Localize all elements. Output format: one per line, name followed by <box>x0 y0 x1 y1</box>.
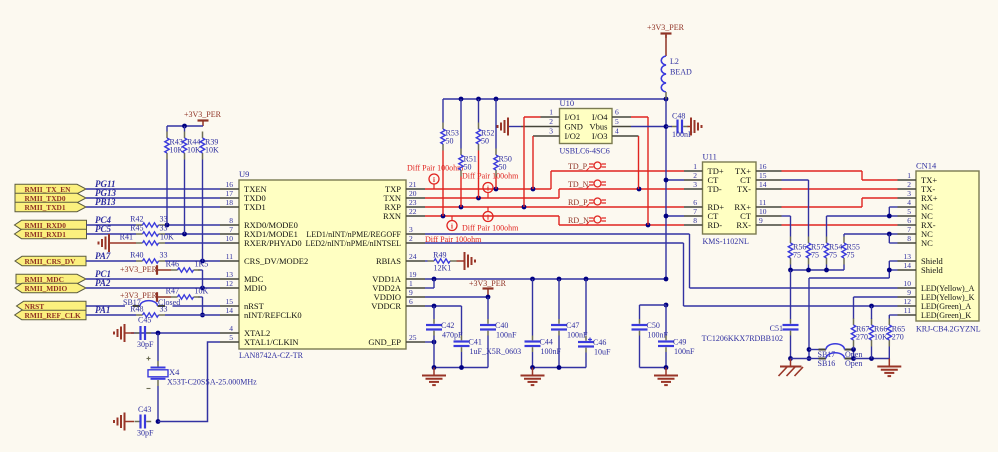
junction VDDCR C42 <box>432 304 437 309</box>
U9 pin 12 MDIO <box>220 287 239 289</box>
resistor R66 10K <box>871 319 873 326</box>
svg-text:C48: C48 <box>672 112 685 121</box>
U11 pin 8 RD- <box>684 224 703 226</box>
svg-text:5: 5 <box>615 117 619 126</box>
junction VDD C46 <box>584 277 589 282</box>
wire R52 bottom to TXN <box>478 151 480 199</box>
svg-text:LED1/nINT/nPME/REGOFF: LED1/nINT/nPME/REGOFF <box>306 230 401 239</box>
svg-text:6: 6 <box>693 198 697 207</box>
port RMII_TXD1 <box>15 202 86 211</box>
junction gnd C41 <box>459 365 464 370</box>
ground at R65 <box>888 359 890 367</box>
U9 pin 7 RXD1/MODE1 <box>220 233 239 235</box>
port RMII_REF_CLK <box>15 310 86 319</box>
svg-text:RMII_RXD1: RMII_RXD1 <box>25 230 67 239</box>
U11 pin 10 CT <box>756 215 782 217</box>
junction TD_N/U10 pin4 <box>637 187 642 192</box>
wire C47 column <box>558 279 560 319</box>
junction VDDIO C40 <box>486 295 491 300</box>
wire CN14 pin14 Shield <box>889 269 897 271</box>
capacitor C45 30pF <box>135 332 140 334</box>
svg-text:8: 8 <box>229 216 233 225</box>
ground decoupling 1 <box>433 368 435 376</box>
junction rail R51 <box>459 97 464 102</box>
junction CT RX <box>664 214 669 219</box>
svg-text:10K: 10K <box>187 146 201 155</box>
ground decoupling 3 <box>665 368 667 376</box>
svg-text:LED2/nINT/nPME/nINTSEL: LED2/nINT/nPME/nINTSEL <box>305 239 401 248</box>
junction NC78 <box>887 232 892 237</box>
svg-text:TC1206KKX7RDBB102: TC1206KKX7RDBB102 <box>702 334 783 343</box>
U9 pin 13 MDC <box>220 278 239 280</box>
svg-text:U11: U11 <box>703 152 717 162</box>
resistor R43 10K <box>166 132 168 139</box>
wire R50 top <box>495 99 497 149</box>
svg-text:50: 50 <box>481 137 489 146</box>
resistor R47 10K <box>171 296 178 298</box>
svg-text:33: 33 <box>160 305 168 314</box>
svg-text:RMII_TXD1: RMII_TXD1 <box>25 203 66 212</box>
wire RXD0 PC4 to R42 <box>87 224 137 226</box>
wire TD_P row <box>551 170 684 172</box>
junction RXP/U10 pin1 <box>522 205 527 210</box>
resistor R55 75 <box>843 237 845 244</box>
wire C44 column <box>532 279 534 336</box>
wire C42 column <box>433 306 435 319</box>
resistor R48 33 <box>136 314 143 316</box>
svg-text:12: 12 <box>226 279 234 288</box>
svg-text:TD-: TD- <box>708 184 722 194</box>
CN14 pin 2 TX- <box>898 188 917 190</box>
U11 pin 14 TX- <box>756 188 782 190</box>
svg-text:XTAL1/CLKIN: XTAL1/CLKIN <box>244 337 299 347</box>
svg-text:LAN8742A-CZ-TR: LAN8742A-CZ-TR <box>239 351 304 360</box>
wire C50 branch <box>640 304 667 306</box>
svg-text:14: 14 <box>904 261 912 270</box>
svg-text:6: 6 <box>409 297 413 306</box>
svg-text:16: 16 <box>759 162 767 171</box>
svg-text:LED(Yellow)_K: LED(Yellow)_K <box>921 293 975 302</box>
wire TX+ net <box>782 170 863 172</box>
svg-text:BEAD: BEAD <box>670 68 692 77</box>
wire LED yellow K <box>854 296 898 298</box>
junction RXP/R51 <box>459 205 464 210</box>
U10 pin 1 I/O1 <box>541 116 560 118</box>
wire TXEN PG11 <box>86 188 220 190</box>
wire 3V3 rail to pullups <box>167 125 203 127</box>
CN14 pin 4 NC <box>898 206 917 208</box>
svg-text:Diff Pair 100ohm: Diff Pair 100ohm <box>462 172 519 181</box>
junction TXP/R50 <box>494 187 499 192</box>
svg-text:C44: C44 <box>540 338 553 347</box>
CN14 pin 12 LED(Green)_A <box>898 305 917 307</box>
wire R52 top <box>478 99 480 123</box>
wire XTAL2 row <box>131 332 220 334</box>
svg-text:2: 2 <box>693 171 697 180</box>
wire C49 column <box>665 305 667 336</box>
svg-text:18: 18 <box>226 198 234 207</box>
diff pair directive circle 1 <box>429 174 439 184</box>
ground at C43 <box>124 413 126 431</box>
wire CN14 pin4 NC <box>889 206 897 208</box>
svg-text:12: 12 <box>904 297 912 306</box>
U11 pin 16 TX+ <box>756 170 782 172</box>
CN14 pin 7 NC <box>898 233 917 235</box>
svg-text:10K: 10K <box>205 146 219 155</box>
diff pair directive circle 2 <box>483 183 493 193</box>
wire VDDCR row <box>425 305 462 307</box>
U9 pin 14 nINT/REFCLK0 <box>220 314 239 316</box>
svg-text:75: 75 <box>829 251 837 260</box>
svg-text:KMS-1102NL: KMS-1102NL <box>703 237 749 246</box>
svg-text:50: 50 <box>464 163 472 172</box>
resistor R53 50 <box>442 123 444 130</box>
svg-text:1: 1 <box>549 108 553 117</box>
svg-text:R40: R40 <box>130 251 143 260</box>
U9 pin 23 RXP <box>406 206 425 208</box>
wire R53 bottom to RXN <box>442 151 444 217</box>
svg-text:GND: GND <box>565 122 583 132</box>
wire RX+ net <box>782 206 863 208</box>
wire SB right <box>853 350 855 359</box>
ground at U10 GND <box>507 118 509 136</box>
wire R51 top <box>460 99 462 149</box>
CN14 pin 9 LED(Yellow)_K <box>898 296 917 298</box>
U9 pin 19 VDD1A <box>406 278 425 280</box>
wire R43 bottom to RXD0 <box>166 160 168 226</box>
svg-text:5: 5 <box>907 207 911 216</box>
svg-text:75: 75 <box>847 251 855 260</box>
svg-text:GND_EP: GND_EP <box>368 337 401 347</box>
U9 pin 1 VDD2A <box>406 287 425 289</box>
wire R40 to U9 pin11 <box>165 260 220 262</box>
junction R66 bottom <box>869 356 874 361</box>
wire R44 bottom to RXD1 <box>184 160 186 235</box>
port RMII_RXD0 <box>15 220 87 229</box>
svg-text:17: 17 <box>226 189 234 198</box>
svg-text:33: 33 <box>160 224 168 233</box>
U10 pin 4 I/O3 <box>612 135 639 137</box>
capacitor C44 100nF <box>532 336 534 341</box>
U9 pin 5 XTAL1/CLKIN <box>220 341 239 343</box>
CN14 pin 10 LED(Yellow)_A <box>898 287 917 289</box>
svg-text:CN14: CN14 <box>916 161 937 171</box>
ground decoupling 2 <box>532 368 534 376</box>
wire decoupling gnd rail 2 <box>533 367 587 369</box>
svg-text:1K5: 1K5 <box>195 260 209 269</box>
svg-text:270: 270 <box>856 333 868 342</box>
wire R39 bottom to CRS_DV <box>202 160 204 262</box>
wire CN14 pin5 NC to R54 <box>827 215 898 217</box>
wire U10 pin4 to TD_N <box>638 136 640 189</box>
wire RXN from U9 pin22 <box>425 215 559 217</box>
capacitor C43 30pF <box>135 421 140 423</box>
svg-text:24: 24 <box>409 252 417 261</box>
svg-text:C43: C43 <box>138 405 151 414</box>
wire R51 bottom to RXP <box>460 177 462 208</box>
solder bridge SB16 Open <box>809 358 819 360</box>
svg-text:i: i <box>433 176 435 184</box>
junction C43 <box>156 419 161 424</box>
svg-text:30pF: 30pF <box>137 340 154 349</box>
svg-text:R48: R48 <box>130 305 143 314</box>
svg-text:LED(Green)_K: LED(Green)_K <box>921 311 971 320</box>
svg-text:RMII_RXD0: RMII_RXD0 <box>25 221 67 230</box>
junction gnd C47 <box>557 365 562 370</box>
wire C51 bottom <box>790 336 792 359</box>
svg-text:X53T-C20SSA-25.000MHz: X53T-C20SSA-25.000MHz <box>167 378 257 387</box>
wire RX- net <box>782 224 898 226</box>
svg-text:I/O4: I/O4 <box>592 112 608 122</box>
port RMII_RXD1 <box>15 229 87 238</box>
svg-text:14: 14 <box>226 306 234 315</box>
svg-text:16: 16 <box>226 180 234 189</box>
port RMII_MDIO <box>15 283 86 292</box>
junction shield SB16 <box>807 356 812 361</box>
svg-text:19: 19 <box>409 270 417 279</box>
junction R66 top <box>869 304 874 309</box>
wire U10 pin6 to RD_N <box>631 116 648 118</box>
svg-text:10: 10 <box>759 207 767 216</box>
svg-text:1: 1 <box>409 279 413 288</box>
wire 3V3 analog rail <box>443 98 666 100</box>
svg-text:C41: C41 <box>469 338 482 347</box>
wire U11 pin7 CT <box>666 215 684 217</box>
svg-text:+3V3_PER: +3V3_PER <box>120 265 158 274</box>
junction CT TX <box>664 178 669 183</box>
svg-text:50: 50 <box>446 137 454 146</box>
svg-text:9: 9 <box>759 216 763 225</box>
wire U11 pin10 CT to R56 <box>782 215 791 217</box>
junction shield SB17 <box>807 347 812 352</box>
U9 pin 6 VDDCR <box>406 305 425 307</box>
svg-text:R42: R42 <box>130 215 143 224</box>
junction rail R50 <box>494 97 499 102</box>
svg-text:C51: C51 <box>770 324 783 333</box>
U9 pin 21 TXP <box>406 188 425 190</box>
junction rail L2 <box>664 97 669 102</box>
svg-text:C46: C46 <box>593 338 606 347</box>
wire shield across <box>809 277 889 279</box>
diff pair directive circle 3 <box>447 221 457 231</box>
svg-text:25: 25 <box>409 333 417 342</box>
junction RXD0/R43 <box>165 223 170 228</box>
junction SB16 rail <box>851 356 856 361</box>
junction rail R44 <box>182 124 187 129</box>
svg-text:4: 4 <box>615 127 619 136</box>
svg-text:U9: U9 <box>239 169 249 179</box>
U11 pin 2 CT <box>684 179 703 181</box>
svg-text:11: 11 <box>904 306 911 315</box>
wire MDIO PA2 <box>86 287 220 289</box>
wire CN14 pin7 NC to R55 <box>844 233 898 235</box>
wire CN14 pin13 Shield <box>889 260 897 262</box>
svg-text:10: 10 <box>904 279 912 288</box>
junction TXP/U10 pin3 <box>531 187 536 192</box>
wire VDD1A row <box>425 278 666 280</box>
svg-text:USBLC6-4SC6: USBLC6-4SC6 <box>560 147 610 156</box>
solder bridge SB17 Closed <box>133 305 141 307</box>
wire CN14 pin8 NC <box>889 242 897 244</box>
wire LED green K <box>889 314 897 316</box>
wire RXN jog down to RD_N <box>558 216 560 225</box>
svg-text:75: 75 <box>811 251 819 260</box>
wire NRST to SB <box>86 305 125 307</box>
wire R67 bottom <box>853 347 855 350</box>
U10 pin 5 Vbus <box>612 126 631 128</box>
svg-text:6: 6 <box>615 108 619 117</box>
U10 pin 6 I/O4 <box>612 116 631 118</box>
svg-text:i: i <box>451 222 453 230</box>
wire led resistor rail <box>854 358 890 360</box>
svg-text:RX-: RX- <box>736 220 751 230</box>
svg-text:9: 9 <box>907 288 911 297</box>
U9 pin 20 TXN <box>406 197 425 199</box>
svg-text:C45: C45 <box>138 316 151 325</box>
svg-text:1: 1 <box>907 171 911 180</box>
wire TXN jog up to TD_N <box>558 189 560 198</box>
wire C51 top <box>790 270 792 319</box>
svg-text:4: 4 <box>229 324 233 333</box>
junction rail R54 <box>824 268 829 273</box>
svg-text:Diff Pair 100ohm: Diff Pair 100ohm <box>407 164 464 173</box>
junction GND_EP <box>432 340 437 345</box>
capacitor C49 100nF <box>665 336 667 341</box>
svg-text:3: 3 <box>549 127 553 136</box>
port RMII_MDC <box>16 274 86 283</box>
svg-text:X4: X4 <box>169 367 180 377</box>
svg-text:10uF: 10uF <box>594 348 611 357</box>
junction rail R57 <box>806 268 811 273</box>
U11 pin 9 RX- <box>756 224 782 226</box>
transformer U11 body (KMS-1102NL) <box>703 162 757 234</box>
wire RXP/RD_P row <box>425 206 684 208</box>
resistor R56 75 <box>790 237 792 244</box>
wire crystal bottom <box>157 386 159 422</box>
svg-text:R49: R49 <box>433 251 446 260</box>
svg-text:R45: R45 <box>130 224 143 233</box>
svg-text:TD_P: TD_P <box>568 162 588 171</box>
wire R43 top <box>166 126 168 132</box>
wire MDC PC1 <box>86 278 220 280</box>
svg-text:15: 15 <box>759 171 767 180</box>
wire REF_CLK PA1 to R48 <box>86 314 136 316</box>
port RMII_TXD0 <box>15 193 86 202</box>
svg-text:RBIAS: RBIAS <box>376 256 401 266</box>
wire termination rail <box>790 265 792 271</box>
svg-text:RMII_TXD0: RMII_TXD0 <box>25 194 66 203</box>
svg-text:+3V3_PER: +3V3_PER <box>647 23 685 32</box>
diff pair symbol TD_P <box>594 162 601 169</box>
crystal X4 X53T-C20SSA-25.000MHz <box>157 361 159 367</box>
svg-text:1uF_X5R_0603: 1uF_X5R_0603 <box>470 347 522 356</box>
wire RXD1 PC5 to R45 <box>87 233 137 235</box>
svg-text:3: 3 <box>693 180 697 189</box>
wire R53 top <box>442 99 444 123</box>
resistor R46 1K5 <box>171 269 178 271</box>
wire TD_N row <box>559 188 684 190</box>
connector CN14 body (KRJ-CB4.2GYZNL) <box>916 171 979 321</box>
wire R45 to U9 pin7 <box>165 233 220 235</box>
junction RXN/R53 <box>441 214 446 219</box>
svg-text:2: 2 <box>549 117 553 126</box>
junction 3V3 C50 branch <box>664 303 669 308</box>
capacitor C46 10uF polarized <box>585 336 587 341</box>
wire R44 top <box>184 126 186 132</box>
svg-text:TXD1: TXD1 <box>244 202 266 212</box>
svg-text:L2: L2 <box>670 57 679 66</box>
diff pair symbol RD_P <box>594 198 601 205</box>
junction rail R52 <box>476 97 481 102</box>
wire TXD0 PG13 <box>86 197 220 199</box>
wire decoupling gnd rail 1 <box>434 367 488 369</box>
svg-text:22: 22 <box>409 207 417 216</box>
U9 pin 16 TXEN <box>220 188 239 190</box>
U9 pin 25 GND_EP <box>406 341 425 343</box>
chassis ground <box>790 359 792 366</box>
wire U10 pin3 to TXP <box>532 136 534 189</box>
U11 pin 11 RX+ <box>756 206 782 208</box>
U11 pin 3 TD- <box>684 188 703 190</box>
svg-text:3: 3 <box>409 225 413 234</box>
svg-text:NC: NC <box>921 238 933 248</box>
svg-text:33: 33 <box>160 215 168 224</box>
junction VDD C44 <box>530 277 535 282</box>
svg-text:C47: C47 <box>566 321 579 330</box>
wire R47 output <box>198 296 203 298</box>
svg-text:U10: U10 <box>560 98 575 108</box>
svg-text:SB16: SB16 <box>818 359 836 368</box>
wire LED2 from U9 pin2 <box>425 242 684 244</box>
svg-text:RXER/PHYAD0: RXER/PHYAD0 <box>244 238 302 248</box>
svg-text:10K: 10K <box>195 287 209 296</box>
svg-text:21: 21 <box>409 180 417 189</box>
port RMII_CRS_DV <box>15 256 86 265</box>
wire C41 column <box>461 306 463 336</box>
wire R65 bottom <box>888 347 890 359</box>
svg-text:RMII_TX_EN: RMII_TX_EN <box>25 185 72 194</box>
CN14 pin 13 Shield <box>898 260 917 262</box>
resistor R44 10K <box>184 132 186 139</box>
svg-text:14: 14 <box>759 180 767 189</box>
wire decoupling gnd rail 3 <box>640 367 667 369</box>
IC U10 USBLC6-4SC6 ESD protection <box>560 109 613 144</box>
svg-text:20: 20 <box>409 189 417 198</box>
svg-text:Shield: Shield <box>921 265 943 275</box>
U9 pin 18 TXD1 <box>220 206 239 208</box>
svg-text:TD_N: TD_N <box>568 180 589 189</box>
junction C51 shield <box>788 356 793 361</box>
port NRST <box>17 301 87 310</box>
U11 pin 6 RD+ <box>684 206 703 208</box>
svg-text:RD_P: RD_P <box>568 198 588 207</box>
wire TXD1 PB13 <box>86 206 220 208</box>
svg-text:15: 15 <box>226 297 234 306</box>
junction REFCLK/R47 <box>200 313 205 318</box>
ground at R49 <box>464 252 466 270</box>
junction SB17 R67 <box>851 347 856 352</box>
junction rail C51 <box>788 268 793 273</box>
U9 pin 22 RXN <box>406 215 425 217</box>
svg-text:7: 7 <box>907 225 911 234</box>
junction VDD C47 <box>557 277 562 282</box>
junction VDD1A <box>432 277 437 282</box>
port RMII_TX_EN <box>15 184 86 193</box>
wire R66 top lead <box>871 306 873 319</box>
U9 pin 17 TXD0 <box>220 197 239 199</box>
wire XTAL1 loop <box>158 342 220 422</box>
svg-text:LED(Green)_A: LED(Green)_A <box>921 302 971 311</box>
